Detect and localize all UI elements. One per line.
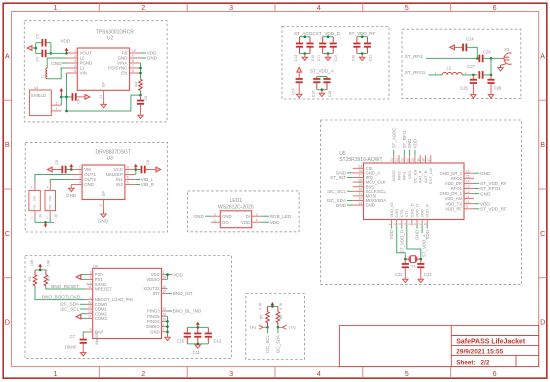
inductor L1 (46, 68, 47, 79)
svg-text:C13: C13 (294, 55, 298, 61)
node VDD at LED1 (261, 221, 269, 223)
svg-text:C27: C27 (467, 64, 475, 69)
svg-text:33: 33 (358, 201, 362, 205)
wire U4 ground bus (167, 316, 169, 337)
svg-text:C25: C25 (460, 86, 468, 91)
capacitor C8 (140, 95, 142, 101)
junction at PS/SYNC (139, 67, 142, 70)
svg-text:29/9/2021 15:55: 29/9/2021 15:55 (456, 348, 503, 355)
antenna X1 (499, 57, 503, 59)
svg-text:C16: C16 (311, 91, 315, 97)
wire C5 to VM (66, 169, 71, 171)
svg-text:5: 5 (405, 369, 409, 378)
svg-text:NRESET: NRESET (95, 287, 112, 292)
svg-text:GND: GND (147, 56, 158, 61)
node I2C_SCL at COM1 (80, 308, 87, 310)
junction C28 branch (490, 57, 493, 60)
svg-text:18: 18 (422, 158, 426, 162)
junction C24 branch (476, 57, 479, 60)
svg-text:INT: INT (153, 291, 160, 296)
ground pair1 (304, 54, 306, 58)
svg-text:24: 24 (390, 158, 394, 162)
ground below EP (103, 100, 105, 104)
supply VDD above VOUT (65, 48, 69, 51)
node GND at GND_DR_1 (474, 193, 479, 195)
ground below U4 (165, 337, 170, 340)
ground below C28 (488, 95, 493, 98)
svg-text:4.7K: 4.7K (279, 302, 283, 310)
svg-text:5: 5 (90, 271, 92, 275)
junction VIN wire crossing (65, 96, 68, 99)
node GND at U5 GND (347, 204, 353, 206)
capacitor C18 (326, 77, 328, 79)
IC U5 pin stubs right (464, 173, 474, 209)
svg-text:I2C_SCL: I2C_SCL (327, 189, 346, 194)
supply VDD above pullups (271, 302, 275, 305)
wire pair1 rails (300, 36, 311, 38)
IC U5 left pin names (366, 166, 387, 208)
svg-text:ST_VDD_RF: ST_VDD_RF (480, 207, 507, 212)
wire VINA/PS-SYNC/EN bus (140, 63, 142, 79)
op-amp U2 EP pin 11 (103, 90, 105, 100)
svg-text:GND: GND (415, 230, 420, 240)
svg-text:GND: GND (51, 61, 62, 66)
capacitor C16 (316, 77, 318, 79)
svg-text:20: 20 (88, 301, 92, 305)
svg-text:DRV8837DSGT: DRV8837DSGT (96, 149, 131, 155)
svg-text:Y1: Y1 (411, 263, 417, 268)
svg-text:P$2: P$2 (33, 204, 37, 209)
svg-text:7: 7 (418, 223, 422, 225)
svg-text:P$1: P$1 (48, 195, 52, 200)
wire shield net to C8 (67, 95, 140, 111)
svg-text:RFI2: RFI2 (396, 171, 401, 180)
junction at VCC (135, 168, 138, 171)
ground pair3 (361, 54, 363, 58)
svg-text:1: 1 (46, 185, 48, 189)
node I2C_SDA at COM0 (80, 303, 87, 305)
svg-text:1: 1 (435, 71, 437, 75)
connector J5 bottom pin (49, 211, 51, 218)
resistor R2 (34, 270, 36, 275)
svg-text:3: 3 (256, 212, 258, 216)
wire pullup top rail (268, 305, 278, 307)
svg-text:A: A (540, 51, 545, 60)
module frame motor driver (25, 142, 167, 232)
svg-text:14: 14 (34, 86, 38, 90)
svg-text:R4: R4 (135, 82, 139, 87)
op-amp U3 body (82, 165, 125, 200)
connector J4 top pin (34, 183, 36, 190)
svg-text:C17: C17 (317, 55, 321, 61)
svg-text:10K: 10K (47, 259, 51, 266)
svg-text:GND: GND (222, 214, 231, 219)
supply arrow left of C3/C4 (27, 46, 32, 51)
svg-text:C20: C20 (351, 55, 355, 61)
svg-text:R5: R5 (260, 315, 264, 320)
wire NSLEEP to VCC node (135, 170, 137, 175)
capacitor C3 (36, 42, 42, 44)
svg-text:AAT_B: AAT_B (423, 170, 428, 183)
resistor R4 (139, 79, 143, 90)
svg-text:VDD: VDD (173, 272, 183, 277)
svg-text:B: B (5, 140, 10, 149)
node ST_VDD_RF at VDD_RF (474, 208, 479, 210)
frame row letters left (5, 51, 10, 326)
IC U4 right pin names (143, 272, 160, 334)
svg-text:GND: GND (480, 171, 491, 176)
svg-text:5: 5 (74, 69, 76, 73)
svg-text:1: 1 (56, 107, 58, 111)
supply arrow above shield node (59, 88, 63, 91)
svg-text:GND: GND (336, 203, 347, 208)
svg-text:7: 7 (132, 64, 134, 68)
supply arrow above C14 (297, 68, 302, 73)
IC U5 pin stubs top (394, 155, 431, 163)
svg-text:6: 6 (132, 69, 134, 73)
svg-text:VIB_R: VIB_R (141, 182, 155, 187)
svg-text:ST_VDD_RF: ST_VDD_RF (349, 31, 376, 36)
svg-text:23: 23 (395, 158, 399, 162)
op-amp U2 left pin names (80, 51, 93, 76)
wire L2 pin to coil (47, 58, 66, 68)
junction shield pin1 (65, 110, 68, 113)
svg-text:X1: X1 (504, 47, 510, 52)
svg-text:31: 31 (358, 192, 362, 196)
supply VDD above cap bank (196, 322, 200, 325)
op-amp U3 EP pin 9 (103, 200, 105, 211)
svg-text:ST_AGDC: ST_AGDC (391, 128, 396, 149)
svg-text:6: 6 (90, 276, 92, 280)
wire ST_RFO1 to L2 (429, 74, 443, 76)
capacitor C6 (72, 93, 77, 101)
svg-text:IN2: IN2 (116, 182, 123, 187)
IC U4 pin numbers right (163, 271, 167, 332)
wire L2 to C27 (462, 74, 477, 76)
junction at EN (139, 72, 142, 75)
svg-text:4: 4 (90, 296, 92, 300)
svg-text:11: 11 (88, 285, 92, 289)
svg-text:BNO_BL_IND: BNO_BL_IND (173, 309, 202, 314)
IC U5 bottom pin names (389, 203, 430, 218)
op-amp U2 body (77, 48, 129, 90)
svg-text:ST_VDD_A: ST_VDD_A (310, 68, 335, 73)
svg-text:1: 1 (53, 3, 57, 12)
IC U4 left pin names (95, 272, 133, 334)
svg-text:AGDC: AGDC (391, 170, 396, 182)
wire cap bank top rail (187, 326, 208, 328)
svg-text:11: 11 (99, 95, 103, 99)
capacitor C13 (299, 37, 301, 44)
wire BNO_BOOTLOAD (35, 286, 87, 300)
svg-text:32: 32 (358, 197, 362, 201)
svg-text:U3: U3 (107, 155, 114, 161)
wire R2/R3 top rail (35, 269, 46, 271)
svg-text:4: 4 (317, 3, 321, 12)
IC U4 pin stubs left (87, 275, 93, 332)
svg-text:R6: R6 (279, 315, 283, 320)
svg-text:EP: EP (102, 82, 106, 88)
node I2C_SDA below R6 (277, 327, 279, 333)
wire OUT1 to J4 (35, 175, 71, 184)
op-amp U2 pin stubs left (67, 53, 78, 73)
svg-text:VDD: VDD (425, 230, 430, 239)
wire ST_VDD_A rails (317, 76, 327, 78)
svg-text:ST_RFI1: ST_RFI1 (405, 54, 424, 59)
IC U5 top pin names (391, 168, 433, 184)
supply arrow right of C6 (76, 96, 85, 98)
connector SHIELD pin 1 (51, 110, 61, 112)
svg-text:4: 4 (403, 223, 407, 225)
svg-text:15: 15 (163, 312, 167, 316)
svg-text:6: 6 (127, 176, 129, 180)
svg-text:10: 10 (132, 49, 136, 53)
svg-text:ST_VDD_D: ST_VDD_D (316, 31, 341, 36)
svg-text:GND: GND (480, 191, 491, 196)
title block outline (339, 326, 538, 367)
wire OUT2 to J5 (50, 180, 71, 184)
wire C27 to C28 node (483, 74, 491, 76)
svg-text:4: 4 (317, 369, 321, 378)
svg-text:19: 19 (88, 305, 92, 309)
svg-text:14: 14 (163, 290, 167, 294)
junction ground rail (44, 221, 47, 224)
supply arrow left of C24 (450, 45, 455, 50)
svg-text:6: 6 (413, 223, 417, 225)
svg-text:22: 22 (401, 158, 405, 162)
node BNO_INT (168, 292, 173, 294)
svg-text:21: 21 (406, 158, 410, 162)
svg-text:9: 9 (90, 328, 92, 332)
op-amp U3 pin numbers right (127, 166, 129, 185)
svg-text:BNO_INT: BNO_INT (173, 291, 193, 296)
wire shield pin2 up (60, 97, 62, 105)
svg-text:1: 1 (388, 223, 392, 225)
junction shield node (60, 96, 63, 99)
wire CSO to crystal left (397, 226, 406, 260)
supply arrow left of C5 (48, 167, 53, 172)
svg-text:4: 4 (256, 218, 258, 222)
node VIB_L at IN1 (136, 179, 140, 181)
svg-text:GND: GND (66, 193, 77, 198)
svg-text:100nF: 100nF (65, 345, 77, 350)
node VDD at VDD_TX (474, 203, 479, 205)
svg-text:COM3: COM3 (95, 316, 108, 321)
LED1 body (220, 211, 251, 228)
svg-text:C21: C21 (368, 55, 372, 61)
svg-text:C3: C3 (36, 34, 40, 39)
capacitor C14 (296, 78, 303, 83)
node GND top (409, 150, 411, 155)
node ST_RFI1 top (403, 150, 405, 155)
svg-text:1: 1 (79, 166, 81, 170)
wire C28 branch vertical (490, 58, 492, 75)
svg-text:8: 8 (423, 223, 427, 225)
module frame power supply (24, 21, 167, 122)
svg-text:CAP: CAP (95, 330, 104, 335)
svg-text:GND: GND (150, 329, 159, 334)
svg-text:9: 9 (466, 205, 468, 209)
ground below C8 (138, 115, 143, 118)
svg-text:ST_VDD_D: ST_VDD_D (399, 230, 404, 253)
svg-text:2: 2 (465, 71, 467, 75)
ground below C23 (418, 279, 423, 282)
node ST_VDD_D bottom pin3 (401, 226, 403, 229)
svg-text:28: 28 (163, 276, 167, 280)
LED1 pin stubs right (252, 215, 261, 217)
svg-text:C26: C26 (483, 49, 491, 54)
svg-text:TP2: TP2 (289, 325, 297, 330)
svg-text:P$1: P$1 (33, 195, 37, 200)
op-amp U3 right pin names (106, 167, 124, 187)
wire ST_RFI1 to C26 (426, 57, 478, 59)
connector J4 bottom pin (34, 211, 36, 218)
node VDD bottom pin8 (426, 226, 428, 229)
capacitor C21 (366, 37, 368, 44)
IC U5 pin numbers top (390, 158, 431, 162)
node ST_VDD_A bottom pin7 (421, 226, 423, 234)
svg-text:VDD_A: VDD_A (425, 204, 430, 218)
svg-text:3: 3 (79, 176, 81, 180)
svg-text:C18: C18 (328, 91, 332, 97)
svg-text:EP: EP (102, 191, 106, 197)
node VDD at U4 (168, 274, 173, 276)
svg-text:C28: C28 (494, 86, 502, 91)
svg-text:2: 2 (163, 323, 165, 327)
node VDD at FB pin (141, 52, 147, 54)
wire shield node to C6 (61, 96, 72, 98)
svg-text:VDDIO: VDDIO (146, 277, 160, 282)
svg-text:C: C (540, 229, 545, 238)
svg-text:B: B (540, 140, 545, 149)
svg-text:RFI1: RFI1 (402, 171, 407, 180)
junction C4 right (50, 52, 53, 55)
wire to VOUT pin 1 (51, 52, 67, 54)
svg-text:29: 29 (358, 183, 362, 187)
module frame I2C pullups (246, 294, 305, 360)
ground pair2 (327, 54, 329, 58)
svg-text:1: 1 (74, 49, 76, 53)
svg-text:8: 8 (127, 166, 129, 170)
svg-text:13: 13 (466, 185, 470, 189)
op-amp U3 pin numbers left (79, 166, 81, 185)
junction at VOUT (65, 52, 68, 55)
capacitor C20 (356, 37, 358, 44)
svg-text:2: 2 (79, 171, 81, 175)
svg-text:TPS63001DRCR: TPS63001DRCR (96, 30, 134, 36)
supply VDD above VM (69, 164, 73, 167)
wire C3/C4 right rail (50, 43, 52, 54)
svg-text:R2: R2 (28, 276, 32, 281)
svg-text:1: 1 (53, 369, 57, 378)
node VDD bottom pin1 (391, 226, 393, 229)
svg-text:VDD: VDD (389, 230, 394, 239)
svg-text:9: 9 (99, 204, 103, 206)
svg-text:5: 5 (408, 223, 412, 225)
capacitor C25 (472, 75, 474, 80)
svg-text:17: 17 (88, 315, 92, 319)
node GND at GND pin (141, 57, 147, 59)
ground below C25 (471, 95, 476, 98)
svg-text:C: C (5, 229, 10, 238)
svg-text:I2C_EN: I2C_EN (412, 169, 417, 183)
capacitor C28 (490, 75, 492, 80)
capacitor C23 (420, 259, 422, 264)
svg-text:GND: GND (84, 182, 94, 187)
svg-text:EXT_LM: EXT_LM (428, 168, 433, 184)
ground ST_VDD_A pair (321, 90, 323, 94)
frame column numbers bottom (53, 369, 496, 378)
svg-text:GND: GND (194, 214, 205, 219)
IC U5 pin stubs left (353, 168, 364, 205)
svg-text:D: D (5, 318, 10, 327)
svg-text:TP1: TP1 (249, 325, 257, 330)
svg-text:ST25R3916-AQWT: ST25R3916-AQWT (339, 157, 382, 163)
svg-text:SafePASS LifeJacket: SafePASS LifeJacket (456, 338, 526, 345)
wire VIN pin down (66, 73, 68, 111)
svg-text:D: D (540, 318, 545, 327)
svg-text:4: 4 (79, 181, 81, 185)
svg-text:EN: EN (121, 71, 127, 76)
wire coil to L1 pin (47, 68, 66, 79)
resistor R5 (267, 306, 269, 311)
op-amp U2 pin numbers left (74, 49, 76, 73)
svg-text:ST_RFO1: ST_RFO1 (405, 70, 426, 75)
svg-text:WS2812C-2020: WS2812C-2020 (218, 204, 254, 210)
node I2C_SCL at SCLK (347, 190, 353, 192)
junction at VM (70, 168, 73, 171)
capacitor bank C11 (197, 327, 199, 333)
node VIB_R at IN2 (136, 184, 140, 186)
IC U5 right pin names (440, 171, 463, 212)
node GND at GND_A (347, 172, 353, 174)
svg-text:26: 26 (358, 169, 362, 173)
IC U5 body (364, 163, 465, 220)
svg-text:12: 12 (466, 190, 470, 194)
svg-text:2: 2 (214, 212, 216, 216)
module frame IMU (25, 256, 232, 359)
op-amp U2 pin stubs right (130, 53, 141, 73)
svg-text:2: 2 (141, 3, 145, 12)
LED1 pin stubs left (211, 215, 220, 217)
svg-text:GND: GND (98, 218, 109, 223)
svg-text:C22: C22 (395, 272, 403, 277)
capacitor C9 (136, 169, 141, 171)
supply VDD above VCC (134, 164, 138, 167)
svg-text:C9: C9 (146, 160, 150, 165)
supply VDD above R2/R3 (38, 264, 42, 267)
svg-text:2: 2 (393, 223, 397, 225)
wire pair2 rails (323, 36, 334, 38)
IC U5 pin numbers left (358, 165, 362, 206)
ground arrow below rail (44, 224, 47, 227)
capacitor C15 (309, 37, 311, 44)
svg-text:VIN: VIN (80, 71, 87, 76)
wire C3/C4 left rail (35, 43, 37, 54)
svg-text:15: 15 (466, 175, 470, 179)
capacitor C24 (462, 44, 467, 52)
svg-text:25: 25 (358, 165, 362, 169)
node GND bottom pin6 (416, 226, 418, 229)
svg-text:3: 3 (229, 369, 233, 378)
svg-text:DO: DO (222, 220, 229, 225)
capacitor C22 (404, 259, 406, 264)
capacitor bank C12 (207, 327, 209, 333)
svg-text:2: 2 (31, 216, 33, 220)
svg-text:1: 1 (163, 328, 165, 332)
svg-text:VDD: VDD (270, 220, 280, 225)
IC U4 pin numbers left (88, 271, 92, 332)
